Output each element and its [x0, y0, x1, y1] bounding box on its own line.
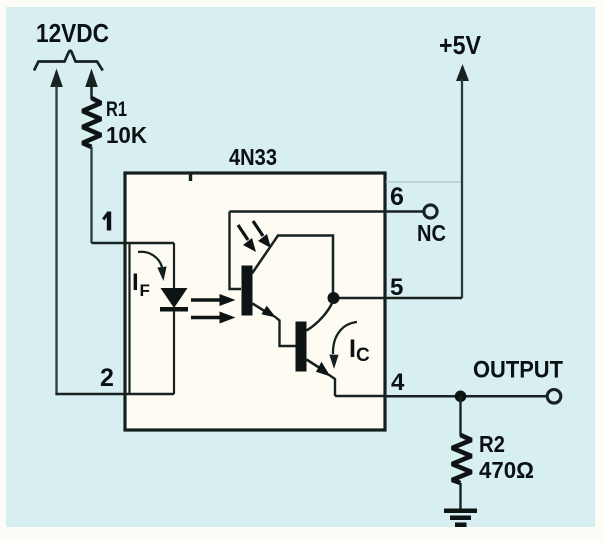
- light arrow 1 (LED to phototransistor): [191, 298, 222, 302]
- svg-text:OUTPUT: OUTPUT: [473, 357, 563, 384]
- transistor Q2 base bar: [296, 322, 307, 372]
- LED cell left side: [128, 243, 130, 394]
- wire pin6 vertical to base: [230, 212, 242, 290]
- wire LED anode vertical: [173, 243, 175, 290]
- terminal OUTPUT circle: [547, 390, 561, 404]
- wire 12VDC right arrow: [85, 69, 98, 88]
- wire pin5 horizontal: [339, 297, 462, 300]
- svg-text:F: F: [140, 281, 150, 300]
- optocoupler U1 4N33 package box: [125, 173, 385, 430]
- svg-text:C: C: [356, 345, 370, 366]
- svg-text:6: 6: [390, 183, 404, 211]
- wire 12VDC left vertical: [55, 85, 57, 394]
- wire Q2 emitter: [307, 360, 320, 368]
- transistor Q1 base bar: [242, 266, 253, 316]
- brace under 12VDC: [34, 51, 103, 71]
- light arrow 2 (LED to phototransistor): [191, 316, 222, 320]
- svg-text:470Ω: 470Ω: [479, 457, 534, 483]
- wire R2 to ground: [459, 483, 461, 510]
- node: collector junction: [328, 292, 340, 304]
- wire +5V arrow: [456, 64, 469, 81]
- svg-text:I: I: [349, 335, 356, 363]
- wire pin2 horizontal: [55, 393, 174, 396]
- wire pin6 horizontal: [230, 210, 424, 213]
- wire Q1 emitter to Q2 base: [253, 304, 267, 313]
- photon arrow 2 into Q1: [253, 221, 263, 236]
- ground: [444, 509, 477, 514]
- svg-text:NC: NC: [417, 220, 446, 246]
- label pin 1: [107, 212, 111, 231]
- terminal NC circle: [424, 205, 437, 218]
- svg-text:R2: R2: [479, 431, 505, 457]
- resistor R2: [452, 435, 472, 483]
- LED cathode bar: [160, 307, 188, 312]
- wire Q2 collector: [307, 301, 334, 331]
- photon arrow 1 into Q1: [238, 225, 248, 240]
- wire above R1: [90, 85, 93, 99]
- svg-text:I: I: [132, 269, 139, 296]
- svg-text:12VDC: 12VDC: [36, 18, 109, 48]
- wire pin4 horizontal inside: [335, 395, 385, 398]
- wire LED cathode vertical: [173, 311, 175, 394]
- wire below R1: [90, 147, 92, 243]
- resistor R1: [83, 98, 102, 147]
- svg-text:R1: R1: [106, 98, 127, 121]
- wire 12VDC left arrow: [50, 69, 63, 88]
- svg-text:4: 4: [391, 369, 405, 396]
- wire +5V vertical: [461, 79, 463, 298]
- arrow IF (curved): [138, 252, 162, 267]
- svg-text:+5V: +5V: [439, 30, 482, 60]
- svg-text:2: 2: [100, 364, 114, 392]
- wire Q1 collector: [252, 236, 333, 297]
- svg-text:10K: 10K: [106, 122, 147, 148]
- wire pin4 to output: [385, 395, 548, 398]
- wire pin1 horizontal: [92, 242, 175, 245]
- LED D1 (emitter diode): [161, 288, 188, 308]
- wire junction to R2: [459, 396, 461, 436]
- svg-text:4N33: 4N33: [229, 144, 277, 170]
- arrow IC (curved): [333, 322, 357, 354]
- node: output junction: [455, 391, 467, 403]
- scan ghost line: [386, 181, 462, 183]
- index tick on box top: [189, 174, 192, 181]
